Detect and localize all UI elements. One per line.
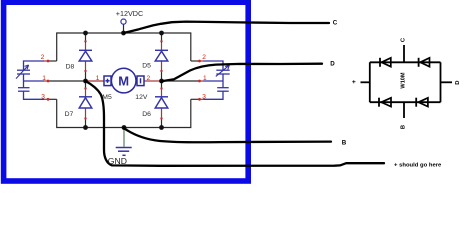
- svg-text:D: D: [330, 61, 335, 68]
- svg-text:3: 3: [202, 93, 206, 100]
- wire D5 bottom stub: [161, 71, 163, 81]
- diode D6: [155, 97, 168, 108]
- terminal +12VDC circle: [121, 19, 126, 24]
- svg-text:D8: D8: [66, 63, 75, 70]
- svg-text:2: 2: [147, 75, 151, 82]
- wire D5 top stub: [161, 33, 163, 43]
- pin stub red J1 pin3: [44, 98, 49, 100]
- wire D8 top stub: [85, 33, 87, 43]
- bridge diode top-left: [380, 58, 391, 67]
- svg-text:B: B: [342, 140, 347, 147]
- svg-text:M: M: [118, 73, 129, 88]
- pin stub red J1 pin1: [44, 80, 49, 82]
- diode D7: [79, 97, 92, 108]
- pin stub red motor right: [144, 80, 160, 82]
- pin stub red D8 anode: [85, 61, 87, 71]
- wire bottom rail: [57, 99, 191, 127]
- pin stub red D6 cathode: [161, 88, 163, 97]
- pin stub red D7 anode: [85, 108, 87, 119]
- svg-text:2: 2: [41, 54, 45, 61]
- connector J2 variable capacitor body (mirror): [204, 61, 230, 99]
- diode D8: [79, 50, 92, 61]
- pin stub red motor left: [86, 80, 104, 82]
- wire top rail: [57, 33, 191, 61]
- svg-text:B: B: [401, 125, 407, 129]
- svg-text:12V: 12V: [135, 94, 148, 101]
- svg-text:C: C: [333, 19, 338, 26]
- wire D7 top stub: [85, 81, 87, 88]
- pin stub red J2 pin1: [199, 80, 204, 82]
- svg-text:3: 3: [41, 93, 45, 100]
- ground symbol: [123, 128, 125, 147]
- wire D6 top stub: [161, 81, 163, 88]
- bridge rectifier W10M outline: [361, 45, 453, 118]
- svg-text:+: +: [351, 80, 358, 84]
- svg-text:2: 2: [202, 54, 206, 61]
- bridge lead B: [403, 102, 405, 118]
- annotation wire D: [162, 64, 323, 81]
- svg-text:D5: D5: [142, 63, 151, 70]
- pin stub red D7 cathode: [85, 88, 87, 97]
- bridge diode top-right: [419, 58, 430, 67]
- annotation wire B: [124, 128, 331, 142]
- blue selection frame: [4, 2, 249, 181]
- svg-text:D6: D6: [142, 111, 151, 118]
- pin stub red J1 pin2: [44, 60, 49, 62]
- annotation wire plus: [86, 81, 385, 166]
- J1 variable-cap arrow: [16, 65, 29, 79]
- pin stub red D8 cathode: [85, 43, 87, 50]
- red pin tip dots: [47, 40, 201, 120]
- wire D7 bottom stub: [85, 119, 87, 128]
- svg-text:1: 1: [96, 75, 100, 82]
- pin stub red J2 pin2: [199, 60, 204, 62]
- svg-text:W10M: W10M: [400, 72, 406, 89]
- pin stub red D6 anode: [161, 108, 163, 119]
- svg-text:1: 1: [42, 75, 46, 82]
- pin stub red D5 cathode: [161, 43, 163, 50]
- svg-text:+ should go here: + should go here: [394, 162, 442, 168]
- J2 variable-cap arrow: [216, 65, 230, 76]
- junction dots: [83, 31, 164, 130]
- bridge diode bottom-left: [379, 98, 391, 107]
- svg-text:1: 1: [203, 75, 207, 82]
- motor M5: [104, 68, 144, 93]
- svg-text:GND: GND: [108, 156, 127, 166]
- svg-text:+12VDC: +12VDC: [116, 9, 143, 18]
- svg-text:D7: D7: [65, 111, 74, 118]
- bridge lead D: [441, 81, 453, 83]
- wire motor row right: [162, 80, 201, 82]
- wire D6 bottom stub: [161, 119, 163, 128]
- bridge lead C: [403, 45, 405, 62]
- pin numbers red: [41, 54, 207, 100]
- wire D8 bottom stub: [85, 71, 87, 81]
- bridge lead plus: [361, 81, 370, 83]
- wire motor row left: [48, 80, 86, 82]
- annotation wire C: [124, 22, 330, 33]
- svg-text:D: D: [455, 81, 461, 85]
- wire +12VDC lead: [123, 24, 125, 33]
- pin stub red J2 pin3: [199, 98, 204, 100]
- bridge diode bottom-right: [416, 98, 428, 107]
- pin stub red D5 anode: [161, 61, 163, 71]
- connector J1 variable capacitor body: [17, 61, 44, 99]
- diode D5: [155, 50, 168, 61]
